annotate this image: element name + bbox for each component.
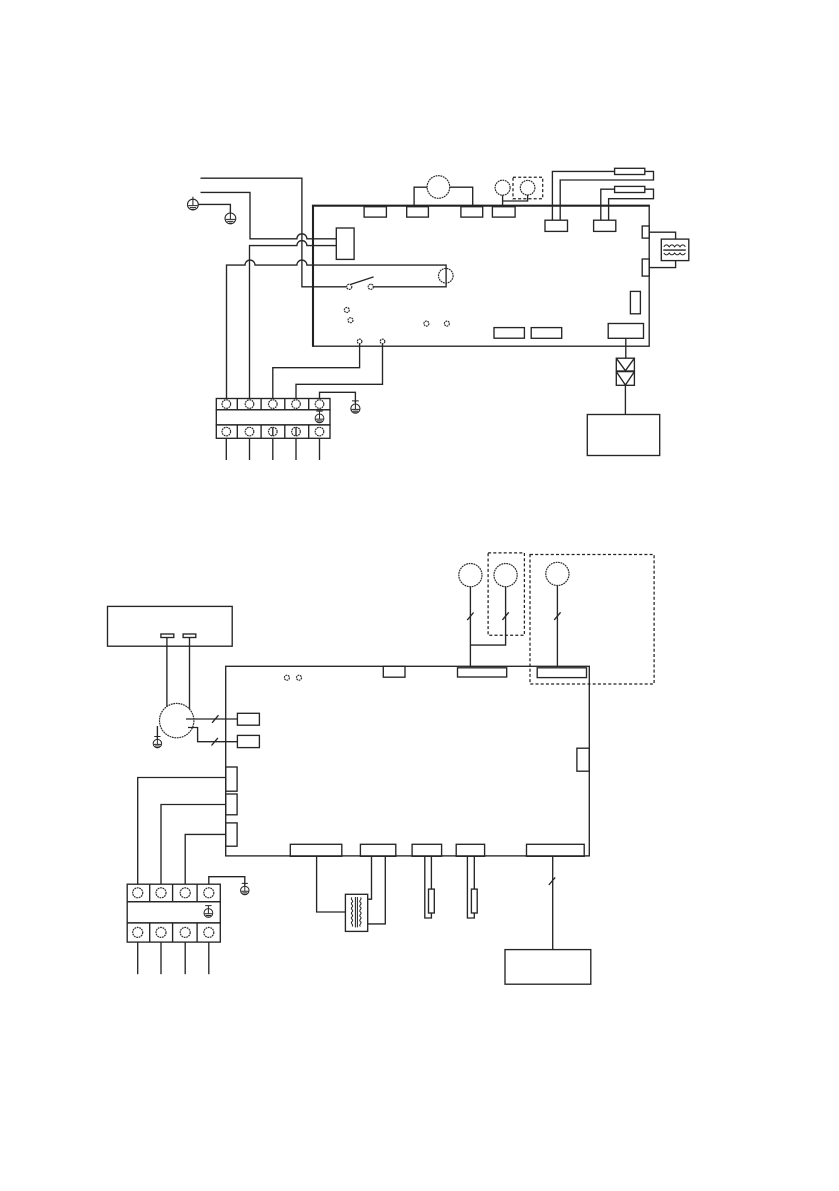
connector slash 3 (467, 613, 473, 621)
pump motor M (160, 703, 194, 737)
TB2 screws bottom row (133, 927, 214, 937)
thermistor TH1 loop (425, 856, 432, 918)
sensor S2 (520, 180, 535, 195)
right edge connector (577, 748, 589, 771)
thermistor TH2 body (471, 889, 477, 913)
wire: terminal 5 to earth (320, 392, 356, 403)
wire: sensor S2 lead (503, 188, 528, 201)
display unit box (108, 606, 233, 646)
transformer T1 (345, 894, 367, 931)
wire: connector2 to terminal 2 (161, 805, 226, 885)
connector slash 4 (502, 612, 508, 620)
switch contact left (347, 284, 352, 289)
big dashed box (optional kit) (530, 555, 654, 685)
wire: transformer secondary 2 (368, 856, 386, 924)
thermostat bulb (439, 268, 454, 283)
bottom tab CNB (360, 844, 395, 856)
wire: motor lead 1 (186, 718, 237, 720)
switch contact right (368, 284, 373, 289)
sensor S1 (495, 180, 510, 195)
terminal block TB2 (127, 884, 220, 942)
wire: to remote box (552, 856, 554, 950)
left edge connector 3 (226, 823, 237, 846)
edge stub rect 2 (642, 259, 649, 276)
wire: terminal 1 thermostat loop (227, 260, 447, 398)
TB2 screws top row (133, 888, 214, 898)
wire: sensor bulb 3 lead (556, 574, 558, 666)
wire: sensor bulb 2 lead (470, 575, 505, 645)
relay RY2 (608, 324, 643, 339)
earth symbol E3 (351, 401, 360, 413)
external unit box (587, 415, 659, 456)
connector tab CN10 (383, 666, 405, 677)
remote unit box (505, 950, 591, 985)
connector plug P1 (615, 168, 645, 174)
fan motor FM (427, 176, 450, 199)
wire: terminal 2 to relay (250, 241, 337, 399)
edge stub rect 1 (642, 226, 649, 238)
motor connector rect 1 (237, 713, 259, 725)
thermistor TH2 loop (467, 856, 474, 918)
wire: motor earth stem (156, 726, 158, 739)
node B pad (380, 339, 385, 344)
TB2 earth symbol (204, 906, 213, 918)
PCB2 main board outline (226, 666, 590, 856)
board pad rect 2 (531, 328, 562, 339)
bottom tab CNE (527, 844, 585, 856)
wire: sensor bulb 1 lead (469, 575, 471, 666)
wire: terminal 4 to earth (209, 877, 245, 886)
connector plug P2 (615, 186, 645, 192)
relay RY1 coil (336, 228, 354, 259)
TB1 field wires (226, 438, 319, 460)
TB1 screws bottom row (222, 427, 324, 436)
board pad rect 1 (494, 328, 524, 339)
bottom tab CND (456, 844, 484, 856)
test point circles (344, 308, 449, 327)
fan motor bracket wires (414, 187, 473, 207)
wire: to external unit (624, 385, 626, 414)
spade terminal 2 (183, 634, 196, 638)
bottom tab CNA (290, 844, 342, 856)
wire: earth link (198, 204, 230, 212)
terminal block TB1 (216, 399, 330, 439)
sensor bulb 2 (494, 564, 517, 587)
connector slash 6 (549, 877, 555, 885)
wire: motor lead 2 (188, 728, 237, 742)
sensor bulb 3 (546, 562, 569, 585)
connector tab CN6 (594, 220, 616, 231)
TB2 field wires (138, 942, 209, 974)
spade terminal 1 (161, 634, 174, 638)
connector tab CN2 (407, 207, 429, 217)
thermistor TH1 body (429, 889, 435, 913)
wire: node A to terminal 3 (273, 344, 360, 399)
connector tab CN12 (537, 668, 586, 678)
node A pad (357, 339, 362, 344)
connector tab CN11 (458, 668, 507, 677)
switch blade (351, 277, 374, 285)
wire: transformer secondary 1 (368, 856, 372, 899)
wire: sensor S1 lead (502, 188, 504, 207)
wire: hairpin loop 1 (552, 171, 653, 220)
wire: heater top lead (649, 232, 675, 239)
left edge connector 1 (226, 767, 237, 791)
connector tab CN3 (461, 207, 483, 217)
wire: to connector (625, 338, 627, 358)
wire: transformer primary (317, 856, 346, 912)
dashed box (option sensor) (488, 553, 524, 635)
earth symbol E4 (motor) (153, 737, 161, 748)
earth symbol E2 (chassis earth) (225, 211, 236, 224)
bottom tab CNC (412, 844, 442, 856)
wire: hairpin loop 2 (601, 189, 654, 220)
TB1 screws top row (222, 400, 324, 409)
earth symbol E1 (supply earth) (188, 197, 199, 210)
left edge connector 2 (226, 794, 237, 815)
wire: heater bottom lead (649, 261, 675, 268)
motor connector rect 2 (237, 735, 259, 747)
dashed box (optional sensor) (513, 177, 543, 199)
heater block H1 (661, 239, 689, 261)
wire: AC supply line L (201, 178, 347, 287)
connector tab CN1 (364, 207, 386, 217)
connector half 2 (616, 372, 634, 386)
connector tab CN5 (545, 220, 568, 231)
connector tab CN4 (492, 207, 515, 217)
connector slash 5 (554, 612, 560, 620)
connector half 1 (616, 358, 634, 371)
connector slash 2 (212, 738, 218, 746)
wire: display to motor leads (167, 638, 190, 713)
TB1 earth symbol (315, 411, 324, 423)
wire: node B to terminal 4 (296, 344, 383, 399)
fuse F1 (630, 291, 640, 313)
earth symbol E5 (241, 883, 249, 894)
connector slash 1 (212, 715, 218, 723)
sensor bulb 1 (459, 564, 482, 587)
wire: connector3 to terminal 3 (185, 834, 226, 884)
wire: AC supply line N (201, 192, 337, 238)
wire: connector1 to terminal 1 (138, 778, 226, 885)
board indicator circles (284, 675, 301, 680)
PCB1 main control board outline (313, 206, 649, 347)
